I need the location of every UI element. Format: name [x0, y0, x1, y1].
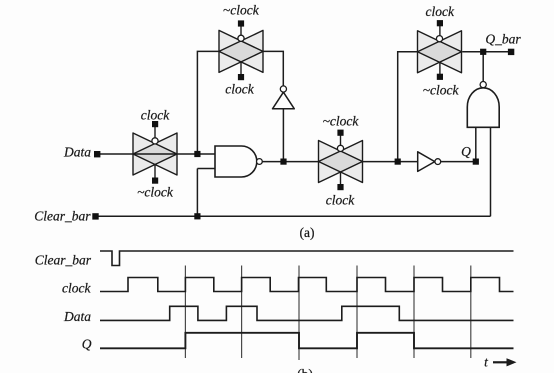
- timing reference line 2: [241, 266, 243, 359]
- wire TG1 top control stub: [154, 124, 156, 138]
- bubble U2: [435, 159, 441, 165]
- svg-text:clock: clock: [425, 4, 454, 19]
- wire TG2 top control stub: [240, 24, 242, 36]
- wire Clear_bar line: [98, 215, 491, 217]
- wire NAND1 input2 down to Clear_bar: [196, 169, 198, 217]
- svg-text:Q: Q: [82, 337, 92, 352]
- wire TG1 bottom control stub: [154, 165, 156, 181]
- timing reference line 6: [470, 266, 472, 359]
- svg-text:~clock: ~clock: [323, 114, 360, 129]
- transmission gate TG4 (feedback right): [418, 31, 462, 73]
- transmission gate TG3 (master to slave): [319, 141, 363, 183]
- arrow time axis: [493, 361, 507, 363]
- wire inverter U1 to node Y: [282, 109, 284, 162]
- wire TG3 bottom control stub: [340, 172, 342, 187]
- junction node Q: [473, 159, 479, 165]
- wire TG4 bottom control stub: [439, 62, 441, 77]
- inverter U2 (pointing right): [418, 152, 435, 172]
- wire inverter U2 output to node Q: [441, 161, 476, 163]
- timing reference line 3: [298, 266, 300, 361]
- svg-text:~clock: ~clock: [223, 3, 260, 18]
- bubble U1: [280, 86, 286, 92]
- wire TG2 output to inverter U1: [263, 51, 284, 86]
- terminal square TG2 clock: [238, 74, 244, 80]
- junction node Y: [280, 159, 286, 165]
- bubble NAND2 output: [480, 82, 486, 88]
- junction node X: [194, 151, 200, 157]
- svg-text:Data: Data: [63, 309, 91, 324]
- wire NAND1 input2 horizontal: [197, 168, 215, 170]
- junction node Q_bar: [480, 49, 486, 55]
- timing reference line 5: [413, 266, 415, 359]
- terminal square TG3 ~clock: [337, 130, 343, 136]
- wire TG4 top control stub: [439, 23, 441, 36]
- svg-text:clock: clock: [62, 281, 91, 296]
- terminal square TG2 ~clock: [238, 20, 244, 26]
- terminal square TG1 ~clock: [152, 178, 158, 184]
- timing reference line 4: [356, 266, 358, 359]
- svg-text:Clear_bar: Clear_bar: [35, 253, 92, 268]
- junction node Z: [395, 159, 401, 165]
- waveform Q: [100, 333, 514, 349]
- waveform Data: [100, 306, 514, 320]
- transmission gate TG2 (feedback top): [219, 30, 263, 72]
- svg-text:Clear_bar: Clear_bar: [34, 209, 91, 224]
- svg-text:clock: clock: [326, 193, 355, 208]
- inverter U1 (pointing up): [273, 92, 295, 109]
- terminal square TG4 ~clock: [437, 74, 443, 80]
- terminal square Data: [94, 151, 100, 157]
- svg-text:Q: Q: [461, 144, 471, 159]
- svg-text:~clock: ~clock: [423, 82, 460, 97]
- wire TG2 bottom control stub: [240, 62, 242, 77]
- svg-text:~clock: ~clock: [137, 185, 174, 200]
- svg-text:Data: Data: [63, 145, 91, 160]
- terminal square TG3 clock: [337, 184, 343, 190]
- waveform clock: [100, 278, 514, 292]
- svg-text:clock: clock: [141, 108, 170, 123]
- svg-text:clock: clock: [225, 82, 254, 97]
- wire node X up to TG2 loop: [197, 51, 219, 154]
- bubble NAND1 output: [257, 159, 263, 165]
- wire TG4 left loop down to node Z: [398, 52, 418, 162]
- wire Q_bar horizontal: [462, 51, 508, 53]
- wire TG3 top control stub: [340, 133, 342, 146]
- wire Data input line: [98, 153, 215, 155]
- terminal square Clear_bar: [92, 213, 98, 219]
- nand gate NAND2 (vertical): [467, 88, 499, 128]
- nand gate NAND1: [215, 146, 257, 177]
- svg-text:(a): (a): [300, 225, 315, 240]
- svg-text:t: t: [484, 355, 489, 370]
- wire TG3 output to inverter U2: [363, 161, 418, 163]
- waveform Clear_bar: [100, 251, 514, 266]
- terminal square Q_bar: [508, 49, 514, 55]
- wire NAND1 output to TG3: [262, 161, 318, 163]
- junction Clear_bar / NAND1 input: [194, 213, 200, 219]
- transmission gate TG1 (Data input): [133, 133, 177, 175]
- svg-text:(b): (b): [297, 367, 313, 373]
- terminal square TG1 clock: [152, 121, 158, 127]
- terminal square TG4 clock: [437, 20, 443, 26]
- svg-text:Q_bar: Q_bar: [485, 32, 521, 47]
- wire NAND2 right input down to Clear_bar: [490, 127, 492, 216]
- timing reference line 1: [184, 266, 186, 359]
- wire Q_bar down to NAND2 output: [482, 52, 484, 82]
- wire NAND2 left input to node Q: [475, 127, 477, 161]
